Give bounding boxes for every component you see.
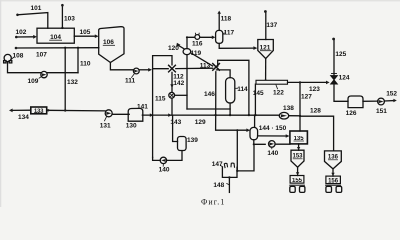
box 156 [326, 176, 341, 184]
wire 102 [16, 36, 33, 38]
wire box135 to hopper 153 [298, 144, 300, 150]
pump 111 [133, 68, 139, 74]
svg-text:113: 113 [200, 62, 211, 69]
svg-text:104: 104 [50, 34, 61, 41]
pump 119 [183, 49, 191, 55]
hopper 153 [291, 150, 304, 167]
wire 133 to pump 131 [47, 109, 105, 112]
wire 127 [299, 82, 301, 131]
tank 106 outlet wire [110, 63, 133, 70]
vent arrow 118 [218, 13, 220, 30]
node dot 103 top [61, 4, 64, 7]
svg-text:114: 114 [237, 86, 248, 93]
riser pipe left [153, 56, 172, 158]
valve 115 stub to vertical [175, 94, 188, 96]
svg-text:Фиг.1: Фиг.1 [201, 198, 225, 207]
pump 140 left [160, 157, 166, 163]
svg-text:145: 145 [253, 90, 264, 97]
wire 107 [16, 47, 99, 49]
outlet 148 [228, 177, 230, 192]
svg-text:117: 117 [224, 30, 235, 37]
wire 132 [64, 48, 66, 111]
mixer box 104 [37, 28, 74, 43]
svg-text:131: 131 [100, 122, 111, 129]
svg-text:107: 107 [36, 52, 47, 59]
scan edge top [0, 0, 400, 1]
svg-text:133: 133 [34, 109, 44, 115]
wire pump111 to pipe [139, 69, 148, 71]
svg-text:116: 116 [192, 40, 203, 47]
svg-text:122: 122 [273, 90, 284, 97]
crucible 147 [224, 163, 234, 168]
main long wire [142, 114, 279, 116]
svg-text:109: 109 [28, 78, 39, 85]
svg-text:134: 134 [18, 114, 29, 121]
svg-text:110: 110 [80, 61, 91, 68]
svg-text:111: 111 [125, 77, 136, 84]
vessel 139 [178, 137, 187, 151]
svg-text:142: 142 [173, 80, 184, 87]
svg-text:127: 127 [301, 94, 312, 101]
svg-text:151: 151 [376, 108, 387, 115]
node dot 103 bottom [61, 27, 63, 29]
conveyor 122 [256, 80, 288, 84]
regulator 116 [195, 35, 200, 40]
svg-text:101: 101 [31, 5, 42, 12]
feeder capsule 144/150 [250, 127, 258, 139]
svg-text:125: 125 [335, 51, 346, 58]
drum 130 [128, 108, 143, 121]
svg-text:119: 119 [191, 50, 202, 57]
wire y37 to vessel 117 [187, 36, 212, 38]
outlet arrow 152 [384, 100, 393, 102]
box 135 [290, 131, 308, 144]
wire row y68.6 [153, 67, 213, 70]
scan edge left [0, 0, 1, 207]
crucible drop wires [237, 130, 254, 171]
branch 113 to right riser [218, 60, 249, 115]
tank 121 outlet [265, 59, 267, 81]
svg-text:146: 146 [204, 91, 215, 98]
node dot 101 [16, 14, 19, 17]
wire drum126 to pump 151 [363, 100, 378, 102]
valve 124 [331, 76, 338, 84]
wire 103 [61, 5, 63, 28]
wire 138 to node [289, 115, 300, 117]
diagonal 120 through pump 119 [178, 45, 213, 66]
wire 125 [333, 40, 335, 75]
svg-text:115: 115 [155, 96, 166, 103]
hopper tank 121 [258, 40, 274, 59]
capsule outlet wires [254, 140, 265, 145]
svg-text:137: 137 [266, 22, 277, 29]
svg-text:147: 147 [212, 161, 223, 168]
svg-text:105: 105 [80, 29, 91, 36]
svg-text:141: 141 [137, 104, 148, 111]
wire 117 to tank 121 [219, 43, 253, 48]
blower 138 [279, 112, 288, 119]
svg-text:129: 129 [195, 119, 206, 126]
pipeL elbow to pump 140 left [153, 157, 161, 160]
wire pump109 to 110 [47, 72, 78, 74]
svg-text:152: 152 [386, 91, 397, 98]
wire pump131 to drum 130 [112, 113, 129, 115]
wire vessel114 top [216, 70, 230, 78]
vessel 117 [216, 30, 223, 43]
svg-text:123: 123 [309, 86, 320, 93]
svg-text:140: 140 [267, 150, 278, 157]
pump 108 [4, 54, 11, 61]
cart wheels under 156 [326, 184, 341, 186]
wire 105 [74, 35, 95, 37]
svg-text:128: 128 [310, 108, 321, 115]
wire capsule to box135 [258, 135, 286, 137]
wire 110 [77, 48, 79, 73]
pump 131 [105, 110, 112, 117]
vertical pump119 line [186, 37, 188, 109]
wire 143 to vessel 139 [173, 115, 178, 141]
svg-text:126: 126 [346, 110, 357, 117]
wire hopper153 to box 155 [297, 167, 299, 175]
svg-text:118: 118 [221, 15, 232, 22]
pump 151 [378, 98, 385, 105]
svg-text:143: 143 [170, 119, 181, 126]
vessel114 bottom wire [229, 103, 231, 115]
wire hopper136 to box 156 [332, 169, 334, 176]
svg-text:108: 108 [13, 52, 24, 59]
wire 101 [18, 13, 48, 29]
wire 123 [288, 81, 327, 83]
svg-text:148: 148 [213, 182, 224, 189]
meter box 133 [31, 107, 47, 114]
pump 109 [41, 71, 47, 77]
arrow 142 [171, 72, 173, 92]
svg-text:140: 140 [159, 167, 170, 174]
pump 140 right [269, 141, 276, 148]
silo tank 106 [99, 27, 124, 63]
pipe below valve 115 [171, 98, 173, 115]
loop wire y109 [187, 108, 230, 110]
svg-text:144 · 150: 144 · 150 [259, 125, 287, 132]
drum 126 [348, 96, 363, 108]
svg-text:138: 138 [283, 105, 294, 112]
svg-text:124: 124 [339, 74, 350, 81]
wire 145 conveyor to capsule [254, 84, 257, 127]
svg-text:120: 120 [168, 45, 179, 52]
discharge arrow 134 [12, 109, 31, 111]
wire 146 from valve 113 down [216, 72, 247, 130]
wire valve124 to drum 126 [334, 84, 348, 101]
hopper 136 [325, 151, 342, 169]
vent 137 [265, 12, 267, 39]
wire pump140l to vessel139 [167, 151, 182, 161]
svg-text:139: 139 [187, 137, 198, 144]
box 155 [290, 176, 304, 184]
valve 113 [213, 64, 220, 71]
valve 115 [169, 92, 175, 98]
valve 112 [169, 65, 176, 72]
wire pump108 to pump109 [8, 62, 41, 73]
wire pump140r to box 135 [275, 143, 290, 145]
vessel 114 [226, 78, 235, 103]
svg-text:102: 102 [16, 29, 27, 36]
svg-text:130: 130 [126, 122, 137, 129]
cart wheels under 155 [290, 184, 305, 186]
svg-text:103: 103 [64, 16, 75, 23]
wire 128 [300, 116, 334, 151]
svg-text:132: 132 [67, 79, 78, 86]
